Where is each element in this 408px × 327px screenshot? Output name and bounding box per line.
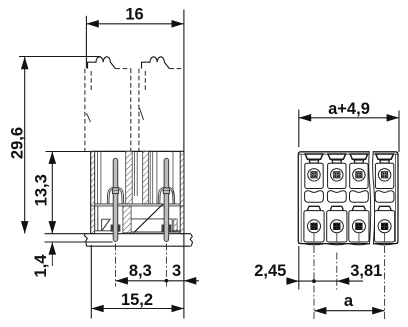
svg-text:a+4,9: a+4,9	[328, 100, 370, 118]
svg-text:16: 16	[125, 5, 143, 23]
svg-text:8,3: 8,3	[129, 262, 152, 280]
svg-text:3,81: 3,81	[350, 262, 382, 280]
svg-text:3: 3	[172, 262, 181, 280]
svg-text:29,6: 29,6	[8, 127, 26, 159]
svg-text:2,45: 2,45	[254, 262, 286, 280]
svg-text:a: a	[344, 292, 354, 310]
svg-text:1,4: 1,4	[32, 254, 50, 278]
svg-text:15,2: 15,2	[121, 291, 153, 309]
svg-text:13,3: 13,3	[33, 174, 51, 206]
